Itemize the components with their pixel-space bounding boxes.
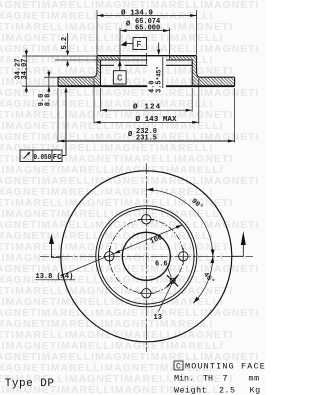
bore circle O65: [122, 232, 170, 280]
vertical centerline: [40, 163, 253, 352]
svg-text:Ø 124: Ø 124: [133, 103, 161, 112]
svg-text:C: C: [117, 74, 123, 84]
wire bottom line: [22, 85, 58, 87]
arc arrowheads: [146, 188, 153, 192]
wire mounting face line y=60: [55, 59, 101, 61]
wire top surface line y=56: [22, 55, 97, 57]
svg-text:5.2: 5.2: [61, 37, 69, 50]
svg-text:mm: mm: [249, 373, 260, 383]
svg-text:Kg: Kg: [250, 385, 261, 395]
svg-text:231.5: 231.5: [136, 134, 157, 142]
wire hat outer right: [197, 56, 199, 77]
svg-text:7: 7: [223, 373, 228, 383]
svg-text:0.050: 0.050: [34, 154, 52, 162]
datum F arrow: [121, 41, 127, 46]
dimension O65.074/65.000: [120, 30, 170, 32]
bolt hole E: [179, 252, 188, 261]
dimension 34.27/34.07: [25, 49, 28, 93]
svg-text:TH: TH: [203, 373, 213, 383]
runout tolerance frame: [20, 88, 66, 162]
bolt circle O100 dash-dot: [109, 219, 183, 293]
label C MOUNTING FACE: [174, 361, 183, 370]
dimension O134.9: [96, 10, 98, 55]
wire band top right: [199, 76, 235, 78]
svg-text:13: 13: [154, 314, 162, 322]
small hole O6.6 SE: [167, 275, 178, 286]
hat wall left section: [94, 60, 101, 86]
datum F box: [126, 38, 147, 50]
svg-text:34.07: 34.07: [21, 58, 29, 79]
wire band top left: [44, 76, 58, 78]
datum C box: [113, 61, 126, 84]
dimension 100 diagonal: [60, 225, 183, 276]
angle annotation arcs r=66.5: [146, 190, 213, 303]
centerline section axis: [145, 53, 147, 64]
hatched areas: [58, 56, 235, 86]
label 13 with leader: [159, 282, 173, 312]
bolt hole W: [105, 252, 114, 261]
wire interior line y=65.3: [101, 64, 115, 66]
chamfer note arrow: [157, 43, 160, 56]
braking band left section: [58, 77, 94, 86]
dimension 9.0/8.8: [47, 70, 50, 93]
dimension O124: [100, 88, 102, 112]
svg-text:2.5: 2.5: [219, 385, 236, 395]
X marks on small hole: [167, 275, 178, 286]
svg-text:FC: FC: [53, 154, 62, 162]
svg-text:Type DP: Type DP: [5, 378, 55, 390]
svg-text:65.000: 65.000: [135, 24, 160, 32]
bolt hole N: [142, 215, 151, 224]
wire disc right edge: [234, 77, 236, 86]
hat top plate left section: [97, 56, 120, 60]
dimension O232.0/231.5: [57, 88, 59, 143]
svg-text:Ø 143 MAX: Ø 143 MAX: [136, 115, 177, 124]
datum C arrow: [118, 60, 122, 66]
svg-text:MOUNTING FACE: MOUNTING FACE: [185, 362, 265, 372]
svg-text:Weight: Weight: [174, 385, 207, 395]
wire disc left edge: [57, 77, 59, 86]
svg-text:3.5*45°: 3.5*45°: [156, 66, 164, 93]
svg-text:C: C: [176, 363, 181, 372]
circle O134.9: [99, 208, 195, 304]
braking band right section: [199, 77, 235, 86]
arc 45deg from E to SE: [193, 256, 213, 303]
dimension 5.2: [66, 33, 69, 67]
wire hat inner left: [100, 60, 102, 86]
svg-text:6.6: 6.6: [155, 261, 168, 269]
svg-text:8.8: 8.8: [45, 94, 53, 107]
svg-text:Min.: Min.: [174, 373, 194, 383]
wire bore right edge: [169, 28, 171, 60]
wire hat inner right: [191, 60, 193, 86]
wire hat outer left: [94, 56, 97, 77]
circle O143: [96, 206, 197, 307]
chamfer note text 4.0/3.5 x45: [147, 57, 166, 94]
horizontal centerline: [40, 255, 253, 257]
svg-text:Ø 134.9: Ø 134.9: [121, 9, 153, 18]
section view direction arrows: [52, 244, 244, 258]
arc 90deg from N to E: [146, 190, 213, 256]
right cutting plane arrow: [232, 245, 243, 256]
bolt hole S: [142, 289, 151, 298]
wire bore left edge: [119, 28, 121, 60]
dimension O143 MAX: [93, 79, 95, 124]
bolt hole ticks: [109, 219, 183, 293]
outer circle O232: [61, 171, 232, 342]
hat wall right section: [192, 60, 199, 86]
hat top plate right section: [170, 56, 197, 60]
leader: [62, 155, 66, 157]
left cutting plane arrow: [52, 244, 61, 258]
svg-text:F: F: [136, 40, 141, 50]
runout symbol: [24, 153, 30, 159]
